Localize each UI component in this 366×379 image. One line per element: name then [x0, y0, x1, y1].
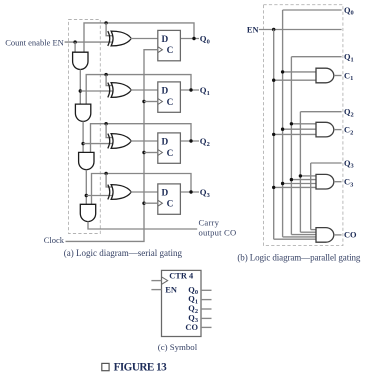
- wire output stub 0 (c): [201, 289, 212, 291]
- wire XOR0 output: [131, 38, 158, 40]
- wire clock to FF2: [144, 152, 158, 154]
- svg-text:EN: EN: [165, 285, 177, 294]
- wire Q1 feedback rail: [86, 75, 191, 105]
- wire EN input (c): [151, 289, 161, 291]
- wire rail2 to XOR top input: [106, 124, 112, 138]
- wire C1 output stub: [334, 75, 342, 77]
- wire input to CO gate: [274, 238, 316, 240]
- wire output stub 1 (c): [201, 299, 212, 301]
- wire EN to G1: [74, 42, 76, 52]
- wire XOR1 output: [131, 89, 158, 91]
- clock chevron FF2: [158, 150, 163, 156]
- and gate G1: [73, 52, 88, 69]
- junction Q1: [189, 88, 192, 91]
- junction chain1: [79, 89, 82, 92]
- bus EN vertical: [273, 30, 275, 240]
- svg-text:EN: EN: [247, 25, 259, 34]
- and gate C2: [316, 122, 334, 137]
- svg-text:(a) Logic diagram—serial gatin: (a) Logic diagram—serial gating: [64, 248, 183, 258]
- wire input to C1 gate: [274, 79, 316, 81]
- junction clock C1: [142, 100, 145, 103]
- xor gate X1: [108, 83, 110, 98]
- clock chevron (c): [162, 277, 168, 284]
- junction rail2: [104, 122, 107, 125]
- flip-flop FF0: [158, 30, 181, 60]
- wire clock trunk: [66, 50, 158, 242]
- junction Q2: [189, 139, 192, 142]
- wire Q2 top: [300, 111, 341, 113]
- wire Q3 output: [180, 191, 199, 193]
- wire Q1 output: [180, 89, 199, 91]
- wire input to C3 gate: [300, 175, 316, 177]
- junction C3 input: [272, 186, 275, 189]
- flip-flop FF3: [158, 184, 181, 214]
- symbol box: [162, 270, 202, 336]
- junction rail0: [104, 21, 107, 24]
- wire rail1 to XOR top input: [106, 75, 112, 86]
- junction C2 input: [272, 133, 275, 136]
- junction C2 input: [281, 128, 284, 131]
- and gate G3: [79, 152, 94, 169]
- bus Q0 vertical: [282, 10, 284, 237]
- wire Q2 feedback rail: [91, 124, 192, 153]
- wire output stub 3 (c): [201, 317, 212, 319]
- svg-text:D: D: [162, 86, 169, 96]
- wire Q0 top: [283, 9, 342, 11]
- wire input to CO gate: [311, 229, 316, 231]
- svg-text:D: D: [162, 35, 169, 45]
- wire C3 output stub: [334, 181, 342, 183]
- junction rail1: [104, 73, 107, 76]
- svg-text:C: C: [167, 46, 174, 56]
- wire Q0 output: [180, 38, 199, 40]
- junction rail3: [104, 172, 107, 175]
- wire clock to FF1: [144, 101, 158, 103]
- wire EN line (b): [259, 29, 342, 31]
- junction C3 input: [281, 182, 284, 185]
- junction C3 input: [299, 174, 302, 177]
- wire input to C3 gate: [274, 186, 316, 188]
- junction Q0: [192, 37, 195, 40]
- svg-text:C: C: [167, 98, 174, 108]
- xor gate X0: [108, 31, 110, 46]
- svg-text:FIGURE 13: FIGURE 13: [114, 362, 168, 374]
- junction C1 input: [272, 79, 275, 82]
- svg-text:Carry: Carry: [199, 218, 220, 228]
- wire input to C2 gate: [291, 123, 316, 125]
- and gate C3: [316, 174, 334, 189]
- wire chain AND3 to AND4: [85, 170, 87, 205]
- wire EN input: [65, 41, 112, 43]
- and gate CO: [316, 228, 334, 243]
- bus Q3 vertical: [310, 163, 312, 230]
- flip-flop FF1: [158, 82, 181, 112]
- wire input to CO gate: [291, 234, 316, 236]
- wire output stub 2 (c): [201, 308, 212, 310]
- junction clock C2: [142, 151, 145, 154]
- junction C3 input: [290, 178, 293, 181]
- wire C2 output stub: [334, 129, 342, 131]
- wire chain AND2 to AND3: [82, 121, 84, 152]
- svg-text:Clock: Clock: [44, 235, 65, 245]
- wire input to CO gate: [300, 231, 316, 233]
- svg-text:CTR 4: CTR 4: [169, 271, 194, 280]
- wire clock input (c): [151, 280, 161, 282]
- wire Q1 top: [291, 56, 341, 58]
- bus Q2 vertical: [299, 112, 301, 233]
- wire XOR3 output: [131, 191, 158, 193]
- wire input to CO gate: [283, 236, 316, 238]
- svg-text:(b) Logic diagram—parallel gat: (b) Logic diagram—parallel gating: [237, 252, 361, 262]
- dashed enclosure (a): [69, 20, 101, 234]
- clock chevron FF3: [158, 200, 163, 206]
- figure marker square: [102, 363, 109, 370]
- xor gate X2: [108, 134, 110, 149]
- dashed enclosure (b): [264, 5, 343, 246]
- wire Q0 feedback rail: [84, 23, 194, 52]
- junction chain3: [85, 194, 88, 197]
- junction EN bus: [272, 28, 275, 31]
- xor gate X3: [108, 185, 110, 200]
- wire CO output stub: [334, 234, 342, 236]
- junction Q3: [189, 190, 192, 193]
- svg-text:CO: CO: [185, 323, 198, 332]
- junction EN-AND1: [73, 40, 76, 43]
- clock chevron FF1: [158, 99, 163, 105]
- wire carry output: [88, 222, 197, 230]
- svg-text:Count enable EN: Count enable EN: [5, 37, 64, 47]
- wire input to C1 gate: [283, 71, 316, 73]
- wire input to C2 gate: [283, 128, 316, 130]
- wire clock to FF3: [144, 202, 158, 204]
- svg-text:D: D: [162, 137, 169, 147]
- svg-text:(c) Symbol: (c) Symbol: [158, 342, 198, 352]
- bus Q1 vertical: [290, 57, 292, 235]
- wire chain AND1 to AND2: [79, 70, 81, 105]
- wire chain branch to XOR2: [83, 143, 112, 145]
- junction C1 input: [281, 70, 284, 73]
- svg-text:C: C: [167, 200, 174, 210]
- and gate G2: [75, 104, 90, 121]
- clock chevron FF0: [158, 47, 163, 53]
- svg-text:C: C: [167, 149, 174, 159]
- flip-flop FF2: [158, 133, 181, 163]
- wire output stub 4 (c): [201, 326, 212, 328]
- wire chain branch to XOR3: [86, 195, 112, 197]
- wire Q3 feedback rail: [92, 174, 192, 205]
- wire input to C2 gate: [274, 133, 316, 135]
- wire Q2 output: [180, 140, 199, 142]
- junction clock C3: [142, 202, 145, 205]
- wire Q3 top: [311, 162, 342, 164]
- junction chain2: [81, 142, 84, 145]
- wire input to C3 gate: [291, 179, 316, 181]
- wire chain branch to XOR1: [80, 90, 112, 92]
- svg-text:CO: CO: [344, 231, 357, 240]
- wire rail0 to XOR top input: [106, 23, 112, 36]
- and gate C1: [316, 68, 334, 83]
- svg-text:D: D: [162, 188, 169, 198]
- wire input to C3 gate: [283, 183, 316, 185]
- and gate G4: [80, 204, 95, 221]
- wire XOR2 output: [131, 140, 158, 142]
- svg-text:output CO: output CO: [199, 228, 237, 238]
- wire rail3 to XOR top input: [106, 174, 112, 188]
- junction C2 input: [290, 122, 293, 125]
